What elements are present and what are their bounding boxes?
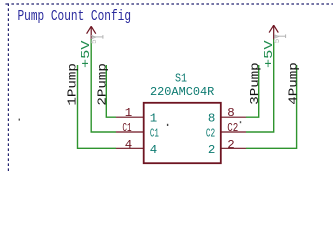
svg-text:3Pump: 3Pump [248, 62, 262, 105]
svg-text:1: 1 [150, 112, 157, 126]
svg-text:2: 2 [227, 138, 234, 152]
svg-text:8: 8 [208, 112, 215, 126]
pin 1 (left top) [116, 106, 157, 126]
svg-text:1: 1 [125, 106, 132, 120]
svg-text:4: 4 [125, 138, 132, 152]
pin C2 (right middle) [206, 121, 246, 141]
wire 3Pump [246, 65, 259, 117]
svg-text:4: 4 [150, 143, 157, 157]
wire 2Pump [106, 65, 116, 117]
svg-text:C2: C2 [206, 127, 215, 141]
pin 2 (right bottom) [208, 138, 246, 157]
svg-text:4Pump: 4Pump [286, 62, 300, 105]
svg-text:C2: C2 [227, 121, 238, 135]
svg-text:C1: C1 [122, 121, 131, 135]
svg-text:1Pump: 1Pump [66, 63, 80, 106]
svg-text:8: 8 [227, 106, 234, 120]
svg-text:2Pump: 2Pump [96, 63, 110, 106]
wire +5V right to pin C2 [246, 39, 274, 132]
svg-text:2: 2 [208, 143, 215, 157]
svg-text:S1: S1 [175, 71, 187, 85]
dashed group boundary [8, 4, 333, 171]
svg-text:5V: 5V [274, 33, 282, 43]
wire +5V left to pin C1 [91, 39, 116, 132]
svg-text:C1: C1 [150, 127, 159, 141]
hidden power pin 5V ghost (right, grey) [275, 34, 286, 38]
hidden power pin 5V ghost (left, grey) [92, 35, 103, 39]
svg-text:220AMC04R: 220AMC04R [150, 85, 215, 99]
power symbol +5V (right) [269, 25, 278, 39]
svg-text:Pump Count Config: Pump Count Config [18, 9, 132, 25]
IC S1 body [144, 103, 221, 163]
pin 4 (left bottom) [116, 138, 157, 157]
svg-text:5V: 5V [91, 34, 99, 44]
power symbol +5V (left) [87, 26, 96, 39]
pin C1 (left middle) [116, 121, 159, 141]
wire 1Pump [78, 65, 117, 148]
pin 8 (right top) [208, 106, 246, 126]
wire 4Pump [246, 65, 297, 148]
